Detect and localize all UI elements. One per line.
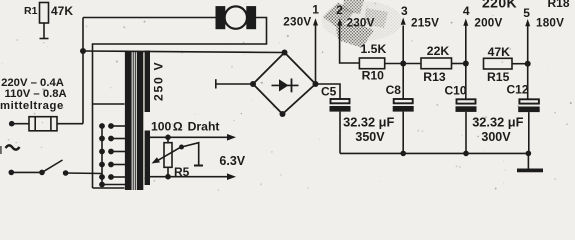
svg-text:22K: 22K <box>427 44 450 58</box>
node 3 vertical <box>402 26 404 100</box>
capacitor C5 <box>330 99 351 153</box>
transformer Tr primary winding <box>125 51 132 190</box>
fuse Si <box>9 117 83 131</box>
resistor R1 <box>40 3 49 39</box>
wire: bridge to C5 <box>316 84 341 99</box>
svg-text:mitteltrage: mitteltrage <box>0 100 64 112</box>
lamp La (pilot lamp) <box>216 6 255 28</box>
capacitor C10 <box>456 99 477 153</box>
node junction dot on x=83 (to bridge line) <box>80 48 86 54</box>
transformer secondary 6.3V winding <box>145 131 150 186</box>
svg-text:C12: C12 <box>507 83 529 97</box>
svg-text:215V: 215V <box>411 17 439 30</box>
svg-text:1.5K: 1.5K <box>361 42 387 56</box>
diode inside bridge <box>272 79 299 93</box>
svg-text:C10: C10 <box>445 84 467 98</box>
svg-text:C5: C5 <box>321 85 337 99</box>
capacitor C12 <box>518 99 540 153</box>
svg-text:4: 4 <box>463 4 470 18</box>
arrow node 3 <box>401 18 406 25</box>
left edge scan smudge <box>0 146 2 154</box>
svg-text:R18: R18 <box>548 0 570 10</box>
wire: lamp right return <box>93 18 267 189</box>
wire: long horizontal to bridge top <box>83 51 285 53</box>
svg-text:47K: 47K <box>488 45 511 59</box>
svg-text:C8: C8 <box>386 83 402 97</box>
svg-text:110V – 0.8A: 110V – 0.8A <box>5 88 67 100</box>
transformer secondary 250V winding <box>145 51 150 113</box>
bridge rectifier input terminal <box>216 79 253 88</box>
svg-text:R10: R10 <box>362 69 385 83</box>
rheostat R5 <box>152 137 182 176</box>
svg-text:230V: 230V <box>347 17 375 30</box>
svg-text:5: 5 <box>523 6 530 20</box>
capacitor C8 <box>393 99 414 153</box>
resistor R13 <box>403 58 466 69</box>
node 5 vertical <box>527 26 529 99</box>
wire: vertical feed x=83 from lamp wire down to fuse <box>82 18 84 124</box>
transformer core <box>133 51 135 190</box>
svg-text:200V: 200V <box>474 17 502 30</box>
arrow node 2 <box>337 18 342 25</box>
wire: horizontal lamp feed y=17.5 <box>83 17 216 19</box>
svg-text:250 V: 250 V <box>152 61 166 101</box>
arrow node 4 <box>463 19 468 26</box>
wire 6.3V top with arrow <box>150 134 236 141</box>
switch S <box>9 160 103 176</box>
tap column wire with junction dots <box>99 123 105 187</box>
rheostat wiper tap to terminal <box>179 143 203 166</box>
arrow node 1 <box>313 18 318 25</box>
svg-text:350V: 350V <box>355 130 385 144</box>
halftone smudge top right <box>322 0 402 48</box>
svg-text:220K: 220K <box>482 0 517 11</box>
wire: bridge + output up to node 1 <box>315 25 317 84</box>
svg-text:2: 2 <box>336 3 343 17</box>
svg-text:R1: R1 <box>24 5 38 17</box>
svg-text:32.32 μF: 32.32 μF <box>343 114 394 129</box>
arrow node 5 <box>525 19 530 26</box>
resistor R10 <box>359 58 403 69</box>
bridge rectifier Gr <box>250 50 319 118</box>
svg-text:1: 1 <box>312 3 319 17</box>
wire node 2 down to R10 <box>340 26 360 64</box>
primary tap selector box <box>93 104 125 188</box>
svg-text:32.32 μF: 32.32 μF <box>472 115 523 130</box>
AC symbol ~ <box>6 145 20 149</box>
svg-text:R13: R13 <box>423 70 446 84</box>
wire 6.3V bottom with arrow <box>150 173 236 180</box>
svg-text:230V: 230V <box>283 16 311 29</box>
ground bus wire <box>340 152 528 154</box>
svg-text:300V: 300V <box>481 130 511 144</box>
ground <box>517 153 543 170</box>
svg-text:6.3V: 6.3V <box>219 154 245 168</box>
node 4 vertical <box>465 26 467 100</box>
resistor R15 <box>484 58 528 69</box>
paper speckle noise <box>2 3 572 191</box>
transformer core bar <box>137 51 144 190</box>
tap terminals to winding <box>102 123 125 184</box>
svg-text:180V: 180V <box>536 17 564 30</box>
